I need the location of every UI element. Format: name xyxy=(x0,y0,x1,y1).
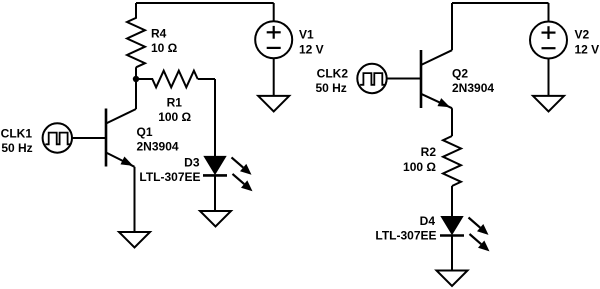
svg-text:12 V: 12 V xyxy=(575,43,600,57)
wire top-right net (Q2 collector to V2) xyxy=(452,2,549,4)
resistor R2 xyxy=(443,136,461,186)
svg-text:LTL-307EE: LTL-307EE xyxy=(139,170,200,184)
clock source CLK1 xyxy=(43,123,72,152)
svg-text:Q1: Q1 xyxy=(137,125,153,139)
svg-text:V1: V1 xyxy=(299,27,314,41)
wire CLK2 to Q2 base xyxy=(387,78,421,80)
label D3 LTL-307EE xyxy=(139,156,200,185)
clock source CLK2 xyxy=(357,64,386,93)
LED D3 xyxy=(203,156,253,191)
svg-text:50 Hz: 50 Hz xyxy=(1,141,32,155)
svg-text:LTL-307EE: LTL-307EE xyxy=(375,229,436,243)
wire D4 cathode to ground xyxy=(451,236,453,271)
label CLK1 50 Hz xyxy=(1,127,33,156)
svg-text:D3: D3 xyxy=(184,156,200,170)
label Q2 2N3904 xyxy=(452,67,494,96)
svg-text:2N3904: 2N3904 xyxy=(452,81,494,95)
resistor R1 xyxy=(136,71,215,88)
wire Q2 collector up xyxy=(451,3,453,50)
ground (below D4) xyxy=(437,271,468,287)
voltage source V1 xyxy=(255,3,292,58)
svg-text:12 V: 12 V xyxy=(299,43,324,57)
wire Q1 collector to junction xyxy=(135,79,137,109)
wire R1 to D3 anode xyxy=(214,79,216,157)
svg-text:50 Hz: 50 Hz xyxy=(315,81,346,95)
svg-text:V2: V2 xyxy=(575,27,590,41)
ground (below V1) xyxy=(258,96,289,112)
svg-text:100 Ω: 100 Ω xyxy=(158,110,191,124)
LED D4 xyxy=(440,217,490,252)
ground (below Q1 emitter) xyxy=(119,232,150,248)
wire CLK1 to Q1 base xyxy=(72,137,106,139)
label V1 12 V xyxy=(299,27,324,56)
wire D3 cathode to ground xyxy=(214,175,216,211)
transistor Q2 xyxy=(421,50,452,108)
ground (below D3) xyxy=(200,211,231,227)
label D4 LTL-307EE xyxy=(375,214,436,243)
svg-text:D4: D4 xyxy=(420,214,436,228)
label R4 10 Ω xyxy=(151,27,178,56)
svg-text:CLK2: CLK2 xyxy=(317,67,349,81)
svg-text:CLK1: CLK1 xyxy=(1,127,33,141)
svg-text:2N3904: 2N3904 xyxy=(137,140,179,154)
label R2 100 Ω xyxy=(403,145,436,174)
svg-text:R1: R1 xyxy=(167,96,183,110)
label V2 12 V xyxy=(575,27,600,56)
label R1 100 Ω xyxy=(158,96,191,125)
voltage source V2 xyxy=(530,3,567,59)
wire V2 to ground xyxy=(548,59,550,96)
wire top-left net (R4 top to V1) xyxy=(136,2,274,4)
svg-text:100 Ω: 100 Ω xyxy=(403,160,436,174)
resistor R4 xyxy=(127,3,145,79)
node junction (collector / R4 / R1) xyxy=(133,76,139,82)
svg-text:Q2: Q2 xyxy=(452,67,468,81)
transistor Q1 xyxy=(106,109,136,167)
svg-text:R4: R4 xyxy=(151,27,167,41)
svg-text:R2: R2 xyxy=(421,145,437,159)
wire R2 to D4 anode xyxy=(451,186,453,218)
wire Q1 emitter to ground xyxy=(134,167,136,232)
svg-text:10 Ω: 10 Ω xyxy=(151,41,178,55)
wire V1 to ground xyxy=(273,58,275,96)
label Q1 2N3904 xyxy=(137,125,179,154)
wire Q2 emitter to R2 xyxy=(451,108,453,136)
label CLK2 50 Hz xyxy=(315,67,348,96)
ground (below V2) xyxy=(533,96,564,112)
